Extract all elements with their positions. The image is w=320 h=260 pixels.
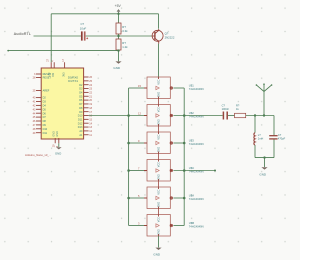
resistor R3 xyxy=(235,113,246,117)
IC U1 Arduino Nano body xyxy=(41,68,83,139)
wire tank bottom xyxy=(255,157,274,159)
junction input bus row5 xyxy=(127,197,130,200)
svg-text:GND: GND xyxy=(153,252,161,256)
svg-text:1mH: 1mH xyxy=(258,137,264,141)
svg-text:VCC: VCC xyxy=(157,107,160,112)
svg-text:U$B: U$B xyxy=(189,221,194,225)
node row4 stub end xyxy=(214,170,216,172)
wire collector drop xyxy=(158,14,160,29)
wire row6 input xyxy=(129,225,144,227)
ground GND divider xyxy=(115,61,121,63)
junction L1 top xyxy=(254,114,256,116)
svg-text:D11: D11 xyxy=(43,132,48,135)
svg-text:3.3k: 3.3k xyxy=(122,29,128,33)
svg-text:GND: GND xyxy=(56,131,59,137)
junction output bus row5 xyxy=(183,197,186,200)
U1 right pin names xyxy=(68,75,83,137)
svg-text:VIN: VIN xyxy=(52,73,55,77)
svg-text:10uF: 10uF xyxy=(80,26,87,30)
resistor R1 3.3k xyxy=(116,23,121,34)
U1 left pin names xyxy=(43,73,52,135)
buffer U$5 xyxy=(144,187,173,209)
node gnd rail left end xyxy=(7,50,9,52)
svg-text:GND: GND xyxy=(52,131,55,137)
svg-text:AREF: AREF xyxy=(43,90,50,93)
wire U$1-U$2 chain xyxy=(158,99,160,105)
wire input bus vertical xyxy=(128,88,130,226)
U1 right pin numbers xyxy=(89,76,92,137)
junction input bus row2 xyxy=(127,114,130,117)
buffer U$6 xyxy=(144,215,173,237)
wire row4 input xyxy=(129,170,144,172)
svg-text:U$A: U$A xyxy=(189,194,194,198)
junction antenna xyxy=(263,114,265,116)
svg-text:GND: GND xyxy=(55,151,61,155)
wire gnd rail left xyxy=(8,50,119,52)
junction tank bottom xyxy=(263,156,265,158)
svg-text:D13: D13 xyxy=(78,126,83,129)
svg-text:Arduino_Nano_v3_...: Arduino_Nano_v3_... xyxy=(25,153,52,157)
svg-text:74HC4049N: 74HC4049N xyxy=(189,197,204,201)
svg-text:74HC4049N: 74HC4049N xyxy=(189,142,204,146)
wire U$5-U$6 chain xyxy=(158,209,160,215)
ground GND column xyxy=(155,248,161,250)
wire row3 input xyxy=(129,142,144,144)
buffer U$1 xyxy=(144,77,173,99)
U1 left pin numbers xyxy=(33,73,36,135)
svg-text:D12: D12 xyxy=(78,122,83,125)
wire C3 branch bottom xyxy=(273,139,275,157)
wire divider top xyxy=(118,14,120,23)
svg-text:U$3: U$3 xyxy=(189,139,194,143)
svg-text:470pF: 470pF xyxy=(278,137,286,141)
supply +5V symbol xyxy=(117,10,120,14)
svg-text:3V3: 3V3 xyxy=(62,72,65,77)
wire row1 output xyxy=(173,87,184,89)
svg-text:D1/TX1: D1/TX1 xyxy=(68,79,78,83)
antenna E1 xyxy=(257,84,272,115)
svg-text:+5V: +5V xyxy=(115,4,122,8)
wire divider mid xyxy=(118,34,120,39)
antenna tip nodes xyxy=(256,83,273,85)
wire U$6 to GND xyxy=(158,236,160,247)
wire row1 input xyxy=(129,87,144,89)
U1 left pins xyxy=(36,74,41,133)
wire L1 branch bottom xyxy=(254,145,256,158)
wire row6 output xyxy=(173,225,184,227)
wire left drop to U1 5V pin xyxy=(50,14,52,63)
transistor Q1 2N2222 xyxy=(152,29,163,44)
svg-text:AudioRTL: AudioRTL xyxy=(14,32,31,36)
wire emitter drop to U$1 xyxy=(158,44,160,77)
polarity + C1 xyxy=(86,37,88,39)
svg-text:C?: C? xyxy=(278,133,282,137)
svg-text:GND: GND xyxy=(113,66,121,70)
svg-text:VCC: VCC xyxy=(157,217,160,222)
svg-text:74HC4049N: 74HC4049N xyxy=(189,87,204,91)
U1 top pin names xyxy=(48,72,65,77)
wire L1 branch top xyxy=(254,116,256,133)
svg-text:D11: D11 xyxy=(78,118,83,121)
svg-text:2N2222: 2N2222 xyxy=(165,36,175,40)
capacitor C2 xyxy=(223,112,227,120)
svg-text:C?: C? xyxy=(81,22,85,26)
wire base rail from AudioRTL through C1 to Q1 base xyxy=(34,35,153,37)
wire U1 output to input bus xyxy=(89,115,144,117)
U1 right pins xyxy=(84,77,89,135)
svg-text:GND: GND xyxy=(259,172,267,176)
wire row3 output xyxy=(173,142,184,144)
wire tank to GND xyxy=(264,158,266,167)
wire output bus vertical xyxy=(183,88,185,226)
wire C2 to R3 xyxy=(228,115,235,117)
U1 top pins xyxy=(51,62,64,68)
wire row2 to C2 xyxy=(173,115,222,117)
svg-text:1.2k: 1.2k xyxy=(122,45,128,49)
wire R2 bottom to GND xyxy=(118,50,120,61)
wire U1 gnd hook xyxy=(58,143,60,147)
svg-text:U$C: U$C xyxy=(189,166,194,170)
inductor L1 xyxy=(254,133,255,145)
wire U$4-U$5 chain xyxy=(158,181,160,187)
junction output bus row3 xyxy=(183,142,186,145)
resistor R2 1.2k xyxy=(116,39,121,50)
svg-text:D10: D10 xyxy=(43,128,48,131)
U1 top pin numbers xyxy=(46,58,64,61)
wire row5 output xyxy=(173,197,184,199)
junction R2 bottom xyxy=(117,49,119,51)
svg-text:R?: R? xyxy=(236,103,240,107)
svg-text:D10: D10 xyxy=(78,115,83,118)
wire top +5V rail xyxy=(51,13,158,15)
capacitor C1 xyxy=(82,31,85,40)
junction output bus row2 xyxy=(183,114,186,117)
svg-text:VCC: VCC xyxy=(157,79,160,84)
svg-text:RESET: RESET xyxy=(43,77,52,80)
svg-text:U$2: U$2 xyxy=(189,111,194,115)
wire U$3-U$4 chain xyxy=(158,154,160,160)
junction input bus row4 xyxy=(127,169,130,172)
ground GND tank xyxy=(261,167,267,169)
junction output bus row4 xyxy=(183,169,186,172)
svg-text:VCC: VCC xyxy=(157,134,160,139)
U1 bottom pin names xyxy=(52,131,59,137)
buffer U$3 xyxy=(144,132,173,154)
wire row5 input xyxy=(129,197,144,199)
svg-text:C?: C? xyxy=(222,103,226,107)
U1 bottom pin numbers xyxy=(52,144,59,147)
buffer U$4 xyxy=(144,160,173,182)
U1 bottom pins xyxy=(55,138,59,143)
wire C3 branch top xyxy=(273,116,275,136)
ground GND U1 xyxy=(56,147,62,149)
buffer U$2 xyxy=(144,105,173,127)
svg-text:U$1: U$1 xyxy=(189,84,194,88)
junction input bus row3 xyxy=(127,142,130,145)
junction +5V rail / divider xyxy=(117,13,119,15)
wire R3 to tank xyxy=(246,115,274,117)
wire row4 stub xyxy=(173,170,215,172)
junction divider mid / base rail xyxy=(117,35,119,37)
svg-text:VCC: VCC xyxy=(157,189,160,194)
svg-text:VCC: VCC xyxy=(157,162,160,167)
capacitor C3 xyxy=(269,136,277,139)
svg-text:100nF: 100nF xyxy=(222,107,230,111)
svg-text:74HC4049N: 74HC4049N xyxy=(189,225,204,229)
wire U$2-U$3 chain xyxy=(158,126,160,132)
